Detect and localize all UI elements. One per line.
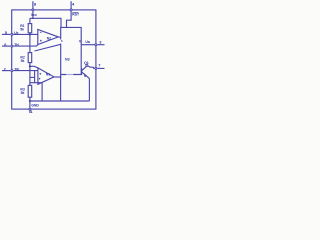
wire Vcc drop from pin 8 [32, 11, 34, 18]
pin 7 circle [95, 67, 97, 69]
wire loop bottom [30, 82, 42, 84]
flip-flop block N3 [61, 27, 81, 74]
plus N1 lower input [39, 78, 41, 80]
resistor R3 [28, 85, 32, 97]
node collector junction circle [86, 64, 88, 66]
wire tap1 to R2 [29, 34, 31, 52]
plus N1 input [39, 73, 41, 75]
svg-text:N2: N2 [47, 37, 51, 41]
pin 2 stub [2, 70, 10, 72]
pin 3 stub [97, 44, 104, 46]
plus N2 input [40, 40, 42, 42]
minus N2 input [40, 31, 42, 33]
svg-text:N1: N1 [46, 73, 50, 77]
wire TR loop under N1 [34, 71, 36, 83]
wire N2 output to block [58, 36, 60, 38]
pin 8 stub [32, 1, 34, 8]
wire output: block to pin 3 [81, 44, 94, 46]
wire RST: pin4 down, jog left, into block top [67, 11, 72, 27]
svg-text:Uc: Uc [14, 31, 18, 35]
wire Uc: pin5 to comparator N2 minus input [13, 33, 38, 35]
GND rail [30, 100, 90, 102]
wire block ground drop [60, 75, 62, 102]
wire R2 to tap2 [29, 63, 31, 67]
transistor Q1 emitter [82, 72, 90, 78]
svg-text:Q1: Q1 [84, 61, 89, 65]
svg-text:Ua: Ua [85, 40, 90, 44]
wire collector node to pin 7 [88, 66, 94, 68]
pin 5 circle [11, 33, 13, 35]
svg-text:5k: 5k [21, 59, 25, 63]
wire stub divider to TR loop [30, 76, 35, 78]
wire TR: pin2 to comparator N1 [13, 70, 38, 72]
wire N1 ground drop [41, 82, 43, 101]
block bottom faint middle [66, 74, 73, 76]
svg-text:Vcc: Vcc [31, 13, 37, 17]
svg-text:5k: 5k [21, 91, 25, 95]
pin 6 stub [2, 45, 10, 47]
wire N1 output to vertical [54, 76, 61, 78]
pin 4 stub [70, 1, 72, 8]
wire diagonal tap to block [35, 44, 61, 51]
pin 8 circle [32, 9, 34, 11]
wire R1 to tap1 [29, 33, 31, 35]
resistor R2 [28, 53, 32, 63]
pin 4 circle [70, 9, 72, 11]
op-amp N2 comparator triangle [38, 29, 59, 44]
pin 1 circle [29, 108, 31, 110]
junction dot tap1 [29, 33, 31, 35]
transistor Q1 collector [82, 66, 87, 71]
junction dot pin8/rail [32, 18, 34, 20]
wire tap2 to R3 [29, 66, 31, 85]
wire tap2 bend into N1 top corner [30, 66, 38, 68]
IC boundary box [12, 10, 96, 109]
svg-text:Q: Q [79, 39, 81, 43]
svg-text:5k: 5k [20, 28, 24, 32]
junction dot R3/GND rail [29, 100, 31, 102]
emitter arrowhead [84, 73, 88, 77]
svg-text:N3: N3 [65, 58, 70, 62]
svg-text:TH: TH [14, 43, 19, 47]
pin 6 circle [11, 45, 13, 47]
pin 5 stub [2, 33, 10, 35]
svg-text:TR: TR [14, 67, 19, 71]
wire R3 to GND rail [29, 97, 31, 101]
svg-text:GND: GND [31, 103, 39, 107]
junction dot N1 out / ground vertical [60, 76, 62, 78]
junction dot tap2 [29, 65, 31, 67]
transistor Q1 base bar [81, 68, 83, 75]
wire pin1 drop from GND rail [29, 101, 31, 108]
op-amp N1 comparator triangle [38, 68, 54, 84]
svg-text:RST: RST [72, 13, 80, 17]
wire emitter drop to GND rail [88, 78, 90, 101]
pin 2 circle [11, 70, 13, 72]
pin 7 stub [97, 67, 104, 69]
pin 3 circle [95, 44, 97, 46]
resistor R1 [28, 24, 32, 33]
wire TH: pin6 right then bend up into N2 lower corner [13, 45, 38, 46]
wire Vcc rail [30, 18, 61, 27]
svg-text:S: S [61, 39, 63, 43]
wire divider top lead [29, 18, 31, 23]
pin 1 stub [29, 111, 31, 114]
